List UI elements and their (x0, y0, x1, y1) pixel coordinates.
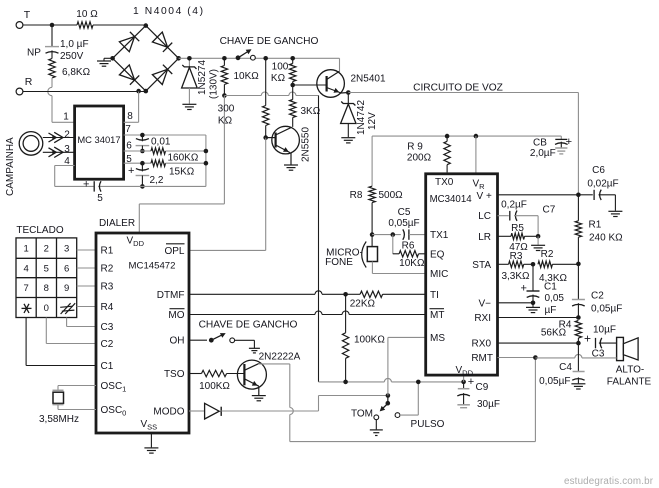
key 7 (23, 283, 28, 294)
resistor R6 (393, 235, 426, 269)
pin LR (478, 232, 491, 243)
key 2 (44, 244, 49, 255)
crystal 3,58MHz (39, 386, 96, 426)
pin OPL (164, 244, 184, 257)
wire (318, 96, 320, 382)
wire (23, 91, 146, 93)
svg-text:3: 3 (64, 244, 69, 255)
svg-text:2: 2 (44, 244, 49, 255)
wire (93, 24, 146, 26)
wire DTMF-TI (189, 291, 346, 294)
IC MC145472 DIALER (96, 218, 189, 433)
svg-text:R2: R2 (101, 264, 114, 275)
wire collector net (258, 358, 535, 442)
svg-text:3: 3 (64, 144, 70, 155)
capacitor C6 (578, 165, 618, 211)
svg-text:(130V): (130V) (209, 69, 220, 99)
node (343, 292, 348, 297)
pin V+ (477, 191, 492, 202)
svg-text:7: 7 (23, 283, 28, 294)
capacitor C9 (457, 375, 500, 410)
keypad TECLADO (16, 225, 77, 318)
pin 4 (64, 156, 70, 167)
ground (571, 384, 585, 389)
ground VSS (144, 433, 158, 453)
svg-text:LR: LR (478, 232, 491, 243)
contact PULSO (395, 382, 418, 418)
svg-text:DIALER: DIALER (99, 218, 135, 229)
capacitor 5 (83, 179, 103, 205)
wire row 2 (77, 267, 96, 269)
svg-text:µF: µF (545, 305, 557, 316)
svg-text:R 9: R 9 (407, 142, 423, 153)
svg-text:MO: MO (168, 310, 184, 321)
svg-text:200Ω: 200Ω (407, 153, 432, 164)
resistor R5 (498, 223, 539, 253)
svg-text:30µF: 30µF (477, 399, 500, 410)
svg-text:R8: R8 (350, 190, 363, 201)
wire RXI (498, 317, 579, 319)
node (416, 380, 421, 385)
wire VR (475, 136, 477, 174)
wire MO-MT (189, 311, 426, 315)
wire pin 6 (124, 150, 151, 152)
svg-text:T: T (24, 9, 31, 21)
svg-text:R1: R1 (589, 220, 602, 231)
svg-text:DTMF: DTMF (157, 290, 185, 301)
wire col 3 (67, 318, 96, 327)
node (144, 23, 149, 28)
svg-text:6: 6 (64, 264, 69, 275)
pin 7 (125, 124, 131, 135)
svg-text:TX1: TX1 (430, 230, 449, 241)
svg-text:10KΩ: 10KΩ (234, 71, 260, 82)
svg-text:C1: C1 (544, 282, 557, 293)
resistor 10 ohm (76, 9, 98, 28)
node (110, 56, 115, 61)
resistor 3K (290, 85, 321, 127)
pin VR (473, 178, 486, 191)
key 5 (44, 264, 49, 275)
svg-text:R6: R6 (402, 241, 415, 252)
svg-text:8: 8 (44, 283, 49, 294)
wire MS net (388, 337, 426, 395)
switch CHAVE DE GANCHO 2 (209, 333, 235, 343)
node (576, 193, 581, 198)
svg-text:estudegratis.com.br: estudegratis.com.br (564, 476, 654, 487)
transistor 2N5401 (317, 58, 386, 97)
pin 6 (126, 141, 132, 152)
svg-text:6: 6 (126, 141, 132, 152)
wire pin 2 (43, 132, 75, 142)
svg-text:0,05µF: 0,05µF (539, 376, 570, 387)
ground (235, 340, 260, 353)
svg-text:RX0: RX0 (472, 339, 492, 350)
wire V+ (498, 194, 579, 196)
ground (370, 420, 383, 436)
svg-text:2N5401: 2N5401 (351, 74, 386, 85)
resistor R8 (350, 136, 404, 235)
svg-text:+: + (584, 332, 591, 346)
node (533, 355, 538, 360)
wire V- (498, 302, 534, 304)
ground (608, 211, 622, 216)
wire (23, 24, 77, 26)
pin RX0 (472, 339, 492, 350)
label (220, 36, 319, 47)
node (290, 56, 295, 61)
svg-text:10KΩ: 10KΩ (399, 258, 425, 269)
pin C1 (101, 361, 114, 372)
svg-text:2,0µF: 2,0µF (530, 148, 556, 159)
resistor 100K (342, 294, 385, 382)
svg-text:OPL: OPL (164, 246, 184, 257)
wire OPL net (189, 138, 266, 251)
node (474, 134, 479, 139)
svg-text:RMT: RMT (471, 353, 493, 364)
svg-text:C5: C5 (398, 207, 411, 218)
IC MC34014 (426, 174, 498, 375)
node (576, 315, 581, 320)
svg-text:+: + (566, 136, 572, 148)
pin RMT (471, 353, 493, 364)
svg-text:R3: R3 (101, 282, 114, 293)
label (413, 83, 503, 94)
resistor 6,8K (49, 59, 91, 79)
pin V- (478, 298, 491, 309)
key 0 (44, 303, 49, 314)
capacitor C7 0,2uF (498, 200, 556, 237)
capacitor C4 (539, 343, 584, 387)
resistor 22K (346, 291, 426, 309)
svg-text:LC: LC (478, 211, 491, 222)
node (176, 56, 181, 61)
wire pin 3 (43, 147, 75, 157)
pin OSC0 (101, 405, 127, 418)
svg-text:100KΩ: 100KΩ (354, 335, 385, 346)
svg-text:56KΩ: 56KΩ (541, 328, 567, 339)
wire pin 8 (124, 92, 139, 123)
pin 5 (126, 154, 132, 165)
svg-text:+: + (468, 376, 474, 388)
svg-text:NP: NP (27, 48, 41, 59)
pin 3 (64, 144, 70, 155)
pin MIC (430, 269, 448, 280)
node (576, 341, 581, 346)
capacitor C2 (572, 264, 622, 318)
terminal T (16, 9, 31, 28)
node (290, 83, 295, 88)
pin R1 (101, 246, 114, 257)
switch TOM (374, 393, 390, 419)
wire col 1 (26, 318, 96, 366)
node (204, 149, 209, 154)
svg-text:3,3KΩ: 3,3KΩ (501, 271, 530, 282)
key # (60, 303, 75, 314)
key 9 (64, 283, 69, 294)
ground (555, 148, 567, 154)
resistor 160K (151, 148, 206, 164)
svg-text:R2: R2 (541, 249, 554, 260)
wire (372, 234, 401, 236)
svg-text:500Ω: 500Ω (379, 190, 404, 201)
svg-text:MIC: MIC (430, 269, 448, 280)
svg-text:9: 9 (64, 283, 69, 294)
speaker ALTO-FALANTE (607, 337, 652, 387)
resistor 15K (151, 160, 206, 178)
svg-text:8: 8 (127, 111, 133, 122)
wire RMT (498, 357, 536, 359)
resistor R3 (498, 251, 534, 282)
svg-text:160KΩ: 160KΩ (168, 153, 199, 164)
wire row 3 (77, 285, 96, 287)
svg-text:3,58MHz: 3,58MHz (39, 414, 79, 425)
svg-text:4: 4 (23, 264, 28, 275)
svg-text:R1: R1 (101, 246, 114, 257)
capacitor NP 1,0uF 250V (27, 25, 89, 62)
node (370, 232, 375, 237)
svg-text:5: 5 (97, 193, 103, 204)
node (461, 380, 466, 385)
capacitor 0,01 (136, 135, 171, 151)
wire (221, 410, 318, 412)
capacitor C3 10uF (584, 325, 617, 360)
svg-text:C1: C1 (101, 361, 114, 372)
ground (97, 58, 113, 66)
svg-text:250V: 250V (60, 51, 84, 62)
terminal R (16, 76, 33, 95)
wire pin 1 (52, 121, 75, 123)
svg-text:CHAVE DE GANCHO: CHAVE DE GANCHO (199, 320, 298, 331)
svg-text:10µF: 10µF (593, 325, 616, 336)
watermark (564, 476, 654, 487)
wire (98, 185, 206, 187)
wire pin 4 (55, 166, 94, 187)
wire OH (189, 339, 207, 341)
wire VDD rail (139, 96, 224, 233)
svg-text:MS: MS (430, 333, 445, 344)
svg-text:MT: MT (430, 310, 444, 321)
buffer MODO (189, 403, 221, 419)
svg-text:R4: R4 (101, 302, 114, 313)
svg-text:KΩ: KΩ (271, 73, 286, 84)
svg-text:C4: C4 (559, 362, 572, 373)
pin R4 (101, 302, 114, 313)
wire (319, 396, 388, 412)
resistor R1 (575, 195, 623, 264)
pin 1 (63, 112, 69, 123)
resistor R4 (541, 320, 582, 344)
ground (182, 104, 196, 109)
pin MO (168, 309, 184, 321)
svg-text:+: + (83, 179, 89, 191)
wire (293, 84, 327, 86)
pin C2 (101, 339, 114, 350)
wire CIRCUITO DE VOZ net (348, 93, 578, 195)
resistor R9 (407, 136, 450, 172)
pin DTMF (157, 290, 185, 301)
svg-text:ALTO-: ALTO- (616, 365, 645, 376)
svg-text:CB: CB (533, 138, 547, 149)
node (222, 56, 227, 61)
wire pin 5 (124, 162, 151, 164)
ground (284, 165, 298, 170)
ground (526, 303, 540, 313)
node (346, 90, 351, 95)
svg-text:C9: C9 (476, 382, 489, 393)
pin OSC1 (101, 381, 127, 394)
key * (22, 304, 32, 313)
node (136, 89, 148, 94)
pin EQ (430, 249, 445, 260)
svg-text:FALANTE: FALANTE (607, 377, 652, 388)
wire (179, 57, 340, 59)
svg-text:MC34014: MC34014 (430, 194, 473, 205)
pin TSO (164, 369, 185, 380)
svg-text:R: R (25, 76, 33, 88)
wire V+ rail (372, 135, 561, 137)
svg-text:C2: C2 (101, 339, 114, 350)
svg-text:0,05: 0,05 (545, 293, 565, 304)
resistor 10K (221, 58, 259, 95)
svg-text:PULSO: PULSO (411, 419, 445, 430)
svg-text:MC145472: MC145472 (129, 261, 176, 272)
svg-text:3KΩ: 3KΩ (301, 106, 321, 117)
svg-text:V +: V + (477, 191, 492, 202)
resistor 100K TSO (189, 370, 244, 392)
svg-text:+: + (128, 165, 134, 177)
pin VDD (456, 365, 474, 378)
microphone MICRO-FONE (325, 235, 426, 274)
node (204, 161, 209, 166)
label TOM (351, 409, 373, 420)
key 4 (23, 264, 28, 275)
svg-text:+: + (521, 283, 527, 295)
svg-text:TX0: TX0 (435, 177, 454, 188)
IC MC34017 (75, 106, 124, 179)
wire RX0 (498, 342, 579, 344)
svg-text:15KΩ: 15KΩ (169, 167, 195, 178)
svg-text:TSO: TSO (164, 369, 185, 380)
node (445, 134, 450, 139)
wire (224, 92, 318, 96)
pin C3 (101, 322, 114, 333)
node (531, 301, 536, 306)
svg-text:C2: C2 (591, 291, 604, 302)
svg-text:2N2222A: 2N2222A (259, 352, 301, 363)
svg-text:22KΩ: 22KΩ (350, 299, 376, 310)
ground (252, 396, 266, 401)
svg-text:0,02µF: 0,02µF (587, 179, 618, 190)
svg-text:MODO: MODO (153, 407, 184, 418)
svg-text:12V: 12V (367, 112, 378, 130)
switch CHAVE DE GANCHO (236, 49, 256, 60)
svg-text:STA: STA (472, 260, 491, 271)
svg-text:1: 1 (23, 244, 28, 255)
pin TI (430, 290, 439, 301)
key 3 (64, 244, 69, 255)
svg-text:FONE: FONE (325, 257, 353, 268)
svg-text:1: 1 (63, 112, 69, 123)
transistor 2N5550 (266, 126, 312, 164)
svg-text:2: 2 (64, 130, 70, 141)
key 8 (44, 283, 49, 294)
node (140, 161, 145, 166)
svg-text:1N4742: 1N4742 (356, 100, 367, 135)
key 6 (64, 264, 69, 275)
node (263, 135, 268, 140)
node (187, 56, 192, 61)
svg-text:CAMPAINHA: CAMPAINHA (5, 137, 16, 196)
svg-text:TI: TI (430, 290, 439, 301)
transistor 2N2222A (237, 352, 300, 396)
pin R2 (101, 264, 114, 275)
svg-text:300: 300 (218, 104, 235, 115)
key 1 (23, 244, 28, 255)
svg-text:0,2µF: 0,2µF (501, 200, 527, 211)
wire (535, 354, 616, 357)
capacitor 2,2 (128, 163, 164, 186)
svg-text:100: 100 (272, 62, 289, 73)
svg-text:2,2: 2,2 (150, 175, 164, 186)
node (343, 380, 348, 385)
zener 1N5274 (182, 58, 220, 104)
node (391, 232, 396, 237)
wire row 4 (77, 306, 96, 308)
pin MT (430, 309, 445, 321)
pin OH (170, 336, 185, 347)
node (531, 262, 536, 267)
ground (531, 236, 545, 250)
pin TX1 (430, 230, 449, 241)
node (263, 56, 268, 61)
svg-text:R3: R3 (510, 251, 523, 262)
svg-text:C7: C7 (543, 205, 556, 216)
svg-text:C3: C3 (101, 322, 114, 333)
svg-text:0: 0 (44, 303, 49, 314)
capacitor C5 (388, 207, 425, 240)
svg-text:10 Ω: 10 Ω (76, 9, 98, 20)
ground (341, 138, 355, 143)
svg-text:7: 7 (125, 124, 131, 135)
wire col 2 (46, 318, 96, 344)
diode bridge 1N4004 (4) (113, 6, 203, 91)
svg-text:R5: R5 (511, 223, 524, 234)
svg-text:1,0 µF: 1,0 µF (60, 39, 89, 50)
pin VDD (127, 236, 145, 249)
pin 8 (127, 111, 133, 122)
node (576, 262, 581, 267)
svg-text:100KΩ: 100KΩ (199, 381, 230, 392)
wire row 1 (77, 249, 96, 251)
bell CAMPAINHA (5, 132, 43, 196)
label (199, 320, 298, 331)
svg-text:CIRCUITO DE VOZ: CIRCUITO DE VOZ (413, 83, 503, 94)
pin 2 (64, 130, 70, 141)
svg-text:0,05µF: 0,05µF (591, 304, 622, 315)
svg-text:OH: OH (170, 336, 185, 347)
pin VSS (141, 419, 158, 432)
node (536, 234, 541, 239)
svg-text:240 KΩ: 240 KΩ (589, 233, 623, 244)
pin MODO (153, 407, 184, 418)
svg-text:TOM: TOM (351, 409, 373, 420)
pin TX0 (435, 177, 454, 188)
svg-text:RXI: RXI (474, 313, 491, 324)
label PULSO (411, 419, 445, 430)
node (50, 23, 55, 28)
svg-text:MC 34017: MC 34017 (77, 134, 120, 145)
